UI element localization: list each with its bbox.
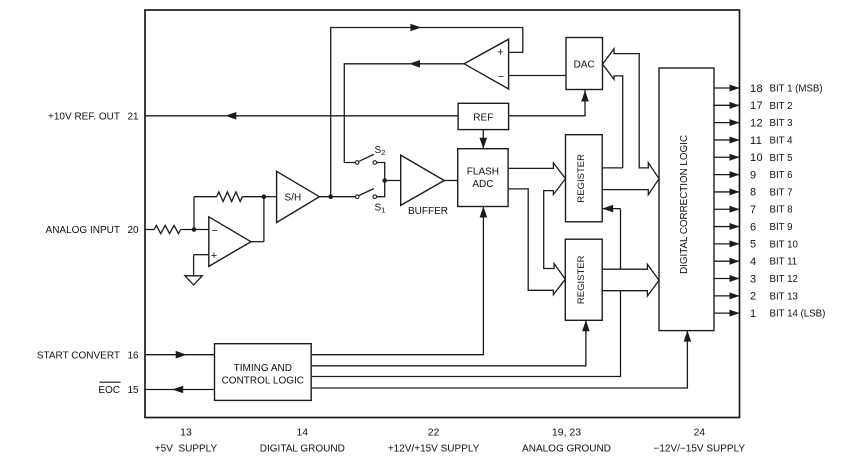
svg-text:CONTROL LOGIC: CONTROL LOGIC xyxy=(222,376,304,387)
svg-text:3: 3 xyxy=(750,273,757,285)
svg-text:BIT 13: BIT 13 xyxy=(770,291,798,302)
svg-text:17: 17 xyxy=(750,100,763,112)
svg-text:BIT 10: BIT 10 xyxy=(770,239,799,250)
svg-text:BIT 6: BIT 6 xyxy=(770,170,793,181)
svg-text:−: − xyxy=(498,71,504,83)
svg-text:+10V REF. OUT: +10V REF. OUT xyxy=(48,111,120,122)
svg-text:−12V/−15V SUPPLY: −12V/−15V SUPPLY xyxy=(654,444,746,455)
svg-text:4: 4 xyxy=(750,256,757,268)
svg-text:BIT 5: BIT 5 xyxy=(770,153,793,164)
svg-text:12: 12 xyxy=(750,117,763,129)
svg-text:START CONVERT: START CONVERT xyxy=(37,350,120,361)
svg-text:+12V/+15V SUPPLY: +12V/+15V SUPPLY xyxy=(388,444,480,455)
svg-text:DIGITAL CORRECTION LOGIC: DIGITAL CORRECTION LOGIC xyxy=(679,135,690,274)
svg-text:2: 2 xyxy=(381,148,385,157)
svg-text:BIT 14 (LSB): BIT 14 (LSB) xyxy=(770,309,826,320)
svg-text:13: 13 xyxy=(180,427,192,439)
svg-text:BIT 4: BIT 4 xyxy=(770,135,794,146)
svg-text:REF: REF xyxy=(473,112,493,123)
svg-text:19, 23: 19, 23 xyxy=(552,427,581,439)
svg-text:BIT 12: BIT 12 xyxy=(770,274,798,285)
svg-text:10: 10 xyxy=(750,152,763,164)
svg-text:BIT 1 (MSB): BIT 1 (MSB) xyxy=(770,84,823,95)
svg-text:11: 11 xyxy=(750,135,762,147)
svg-text:9: 9 xyxy=(750,169,757,181)
svg-text:20: 20 xyxy=(128,225,140,236)
svg-text:15: 15 xyxy=(128,385,140,396)
svg-text:21: 21 xyxy=(128,111,140,122)
svg-text:+: + xyxy=(497,47,503,59)
svg-text:REGISTER: REGISTER xyxy=(576,255,587,304)
svg-text:6: 6 xyxy=(750,221,757,233)
svg-text:BIT 2: BIT 2 xyxy=(770,101,793,112)
svg-text:2: 2 xyxy=(750,291,757,303)
svg-text:BIT 3: BIT 3 xyxy=(770,118,793,129)
svg-text:S/H: S/H xyxy=(285,192,302,203)
svg-text:TIMING AND: TIMING AND xyxy=(234,363,292,374)
svg-text:1: 1 xyxy=(750,308,757,320)
svg-text:7: 7 xyxy=(750,204,757,216)
svg-text:5: 5 xyxy=(750,239,757,251)
svg-text:8: 8 xyxy=(750,187,757,199)
svg-text:14: 14 xyxy=(296,427,308,439)
svg-text:ANALOG GROUND: ANALOG GROUND xyxy=(522,444,611,455)
svg-text:BIT 11: BIT 11 xyxy=(770,257,798,268)
svg-text:EOC: EOC xyxy=(98,385,120,396)
svg-text:BIT 8: BIT 8 xyxy=(770,205,793,216)
svg-text:1: 1 xyxy=(381,205,385,214)
svg-text:24: 24 xyxy=(693,427,705,439)
svg-text:ANALOG INPUT: ANALOG INPUT xyxy=(46,225,120,236)
svg-text:BUFFER: BUFFER xyxy=(408,206,448,217)
svg-text:BIT 9: BIT 9 xyxy=(770,222,793,233)
svg-text:−: − xyxy=(212,225,218,237)
svg-text:REGISTER: REGISTER xyxy=(576,154,587,203)
svg-text:DIGITAL GROUND: DIGITAL GROUND xyxy=(260,444,345,455)
svg-text:16: 16 xyxy=(128,350,140,361)
svg-text:22: 22 xyxy=(428,427,440,439)
svg-text:ADC: ADC xyxy=(472,179,493,190)
svg-text:+: + xyxy=(211,250,217,262)
svg-text:BIT 7: BIT 7 xyxy=(770,187,793,198)
svg-text:+5V SUPPLY: +5V SUPPLY xyxy=(155,444,218,455)
svg-text:FLASH: FLASH xyxy=(467,166,499,177)
svg-text:DAC: DAC xyxy=(574,59,595,70)
svg-text:18: 18 xyxy=(750,83,763,95)
